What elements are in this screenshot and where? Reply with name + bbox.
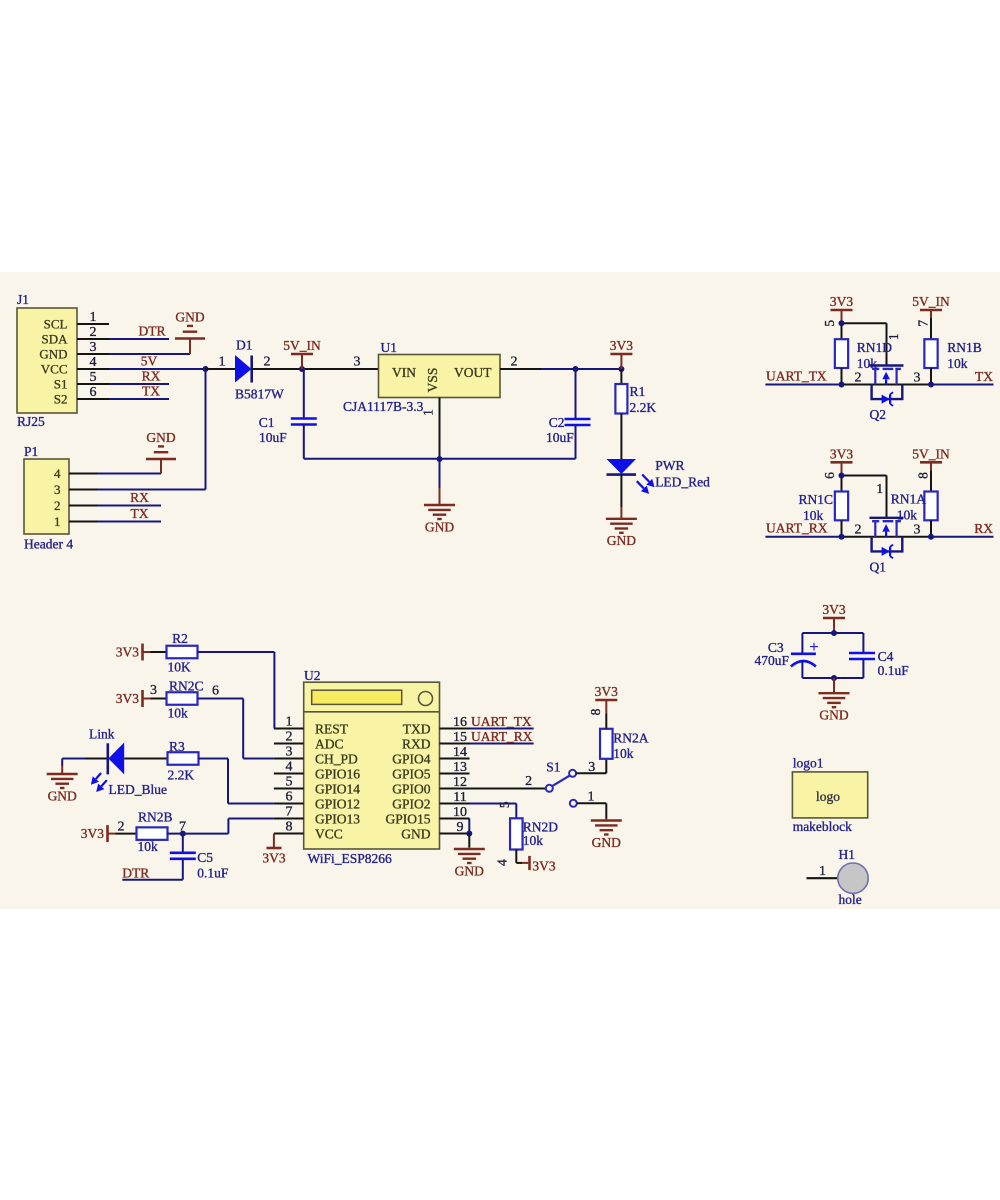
svg-text:RXD: RXD xyxy=(402,736,431,751)
svg-text:5V_IN: 5V_IN xyxy=(912,446,950,461)
svg-text:makeblock: makeblock xyxy=(793,819,852,834)
svg-text:5V_IN: 5V_IN xyxy=(912,294,950,309)
svg-text:3: 3 xyxy=(90,340,97,355)
svg-text:Link: Link xyxy=(89,727,115,742)
svg-text:RX: RX xyxy=(130,490,149,505)
svg-text:1: 1 xyxy=(876,481,883,496)
svg-text:11: 11 xyxy=(453,790,466,805)
svg-text:10k: 10k xyxy=(168,706,189,721)
svg-text:12: 12 xyxy=(453,775,467,790)
svg-text:B5817W: B5817W xyxy=(235,387,284,402)
svg-text:GPIO13: GPIO13 xyxy=(315,811,360,826)
svg-text:VSS: VSS xyxy=(425,368,440,393)
svg-text:GPIO4: GPIO4 xyxy=(392,751,431,766)
svg-text:3V3: 3V3 xyxy=(830,446,853,461)
svg-text:RN1B: RN1B xyxy=(947,340,982,355)
svg-text:3: 3 xyxy=(286,744,293,759)
svg-text:GND: GND xyxy=(819,708,848,723)
svg-text:DTR: DTR xyxy=(122,866,149,881)
svg-text:10K: 10K xyxy=(168,660,192,675)
svg-text:Q2: Q2 xyxy=(870,407,887,422)
svg-text:SCL: SCL xyxy=(44,317,68,332)
svg-text:C5: C5 xyxy=(197,850,213,865)
svg-text:CJA1117B-3.3: CJA1117B-3.3 xyxy=(343,399,424,414)
svg-text:1: 1 xyxy=(588,789,595,804)
svg-text:SDA: SDA xyxy=(41,332,68,347)
svg-text:0.1uF: 0.1uF xyxy=(197,865,229,880)
svg-text:5: 5 xyxy=(497,801,512,808)
svg-text:U1: U1 xyxy=(381,340,398,355)
svg-text:3: 3 xyxy=(914,523,921,538)
svg-text:10k: 10k xyxy=(138,839,159,854)
svg-text:GPIO5: GPIO5 xyxy=(392,766,431,781)
svg-text:5V: 5V xyxy=(141,354,158,369)
svg-text:3: 3 xyxy=(914,370,921,385)
svg-text:R1: R1 xyxy=(630,384,646,399)
svg-text:RN1C: RN1C xyxy=(798,492,833,507)
svg-text:GPIO2: GPIO2 xyxy=(392,796,430,811)
svg-text:10uF: 10uF xyxy=(546,430,574,445)
svg-text:2: 2 xyxy=(855,523,862,538)
svg-text:GPIO0: GPIO0 xyxy=(392,781,431,796)
svg-text:4: 4 xyxy=(495,859,510,866)
svg-text:13: 13 xyxy=(453,760,467,775)
svg-text:REST: REST xyxy=(315,721,349,736)
svg-text:UART_RX: UART_RX xyxy=(471,729,533,744)
svg-text:GPIO14: GPIO14 xyxy=(315,781,360,796)
svg-text:CH_PD: CH_PD xyxy=(315,751,358,766)
svg-text:UART_TX: UART_TX xyxy=(766,368,827,383)
svg-text:1: 1 xyxy=(90,310,97,325)
svg-text:GND: GND xyxy=(175,310,204,325)
svg-text:GPIO12: GPIO12 xyxy=(315,796,360,811)
svg-text:8: 8 xyxy=(588,708,603,715)
svg-text:10uF: 10uF xyxy=(259,430,287,445)
svg-text:2: 2 xyxy=(855,370,862,385)
svg-text:GND: GND xyxy=(48,788,77,803)
svg-text:6: 6 xyxy=(212,684,219,699)
svg-text:6: 6 xyxy=(286,789,293,804)
svg-text:3V3: 3V3 xyxy=(610,338,633,353)
svg-text:PWR: PWR xyxy=(655,458,684,473)
svg-text:J1: J1 xyxy=(17,292,29,307)
svg-text:2: 2 xyxy=(90,325,97,340)
svg-text:S2: S2 xyxy=(54,392,68,407)
svg-text:4: 4 xyxy=(286,759,293,774)
svg-text:RN2B: RN2B xyxy=(138,810,173,825)
svg-text:S1: S1 xyxy=(54,377,68,392)
svg-text:5: 5 xyxy=(286,774,293,789)
svg-text:16: 16 xyxy=(453,715,467,730)
svg-text:3: 3 xyxy=(54,482,61,497)
svg-text:7: 7 xyxy=(916,320,931,327)
svg-text:2: 2 xyxy=(511,355,518,370)
svg-text:1: 1 xyxy=(219,355,226,370)
svg-text:Header 4: Header 4 xyxy=(24,537,73,552)
svg-text:15: 15 xyxy=(453,730,467,745)
svg-text:3V3: 3V3 xyxy=(532,859,555,874)
svg-text:RJ25: RJ25 xyxy=(17,414,45,429)
svg-text:6: 6 xyxy=(822,472,837,479)
svg-text:8: 8 xyxy=(286,819,293,834)
svg-text:LED_Red: LED_Red xyxy=(655,474,710,489)
svg-text:C2: C2 xyxy=(549,415,565,430)
svg-text:2: 2 xyxy=(118,820,125,835)
svg-text:1: 1 xyxy=(819,864,826,879)
svg-text:3V3: 3V3 xyxy=(116,691,139,706)
svg-text:VIN: VIN xyxy=(392,365,416,380)
svg-text:3: 3 xyxy=(588,760,595,775)
svg-text:R2: R2 xyxy=(172,631,188,646)
svg-text:1: 1 xyxy=(54,514,61,529)
svg-text:14: 14 xyxy=(453,745,467,760)
svg-text:TX: TX xyxy=(975,369,993,384)
svg-text:GND: GND xyxy=(592,835,621,850)
svg-text:DTR: DTR xyxy=(139,324,166,339)
svg-text:hole: hole xyxy=(839,892,862,907)
svg-text:GND: GND xyxy=(425,519,454,534)
svg-text:RN2A: RN2A xyxy=(613,731,649,746)
svg-text:Q1: Q1 xyxy=(870,559,887,574)
svg-text:GND: GND xyxy=(607,533,636,548)
svg-text:TXD: TXD xyxy=(403,721,431,736)
svg-text:UART_RX: UART_RX xyxy=(766,521,828,536)
svg-text:C1: C1 xyxy=(259,415,275,430)
svg-text:2.2K: 2.2K xyxy=(630,400,657,415)
svg-text:8: 8 xyxy=(916,472,931,479)
svg-text:2: 2 xyxy=(54,498,61,513)
svg-text:10k: 10k xyxy=(523,833,544,848)
svg-text:3V3: 3V3 xyxy=(595,684,618,699)
svg-text:3: 3 xyxy=(150,683,157,698)
svg-text:GPIO16: GPIO16 xyxy=(315,766,360,781)
svg-text:GPIO15: GPIO15 xyxy=(385,811,430,826)
svg-text:7: 7 xyxy=(286,804,293,819)
svg-text:10k: 10k xyxy=(613,746,634,761)
svg-text:GND: GND xyxy=(39,347,67,362)
svg-text:VOUT: VOUT xyxy=(454,365,492,380)
svg-text:470uF: 470uF xyxy=(754,653,789,668)
svg-text:2: 2 xyxy=(525,774,532,789)
svg-text:C4: C4 xyxy=(878,649,894,664)
svg-text:D1: D1 xyxy=(236,338,253,353)
svg-text:6: 6 xyxy=(90,385,97,400)
svg-text:5V_IN: 5V_IN xyxy=(283,338,321,353)
svg-text:10: 10 xyxy=(453,805,467,820)
svg-text:4: 4 xyxy=(54,466,61,481)
svg-text:logo: logo xyxy=(816,789,840,804)
svg-text:2: 2 xyxy=(264,355,271,370)
svg-text:5: 5 xyxy=(822,320,837,327)
svg-text:RN1A: RN1A xyxy=(891,492,927,507)
svg-text:1: 1 xyxy=(286,714,293,729)
svg-text:3V3: 3V3 xyxy=(262,851,285,866)
svg-text:logo1: logo1 xyxy=(793,756,824,771)
svg-text:0.1uF: 0.1uF xyxy=(878,663,910,678)
svg-text:RX: RX xyxy=(142,369,161,384)
svg-text:3V3: 3V3 xyxy=(822,602,845,617)
svg-text:TX: TX xyxy=(131,506,149,521)
svg-text:2.2K: 2.2K xyxy=(168,768,195,783)
svg-text:WiFi_ESP8266: WiFi_ESP8266 xyxy=(308,851,392,866)
svg-text:H1: H1 xyxy=(839,847,856,862)
svg-text:3V3: 3V3 xyxy=(116,645,139,660)
svg-text:P1: P1 xyxy=(24,444,38,459)
svg-text:RN1D: RN1D xyxy=(857,340,893,355)
svg-text:3V3: 3V3 xyxy=(830,294,853,309)
svg-text:GND: GND xyxy=(455,863,484,878)
svg-text:1: 1 xyxy=(886,333,901,340)
svg-text:4: 4 xyxy=(90,355,97,370)
svg-text:GND: GND xyxy=(146,430,175,445)
svg-text:VCC: VCC xyxy=(41,362,68,377)
svg-text:9: 9 xyxy=(457,820,464,835)
svg-text:RX: RX xyxy=(974,521,993,536)
svg-text:TX: TX xyxy=(142,384,160,399)
svg-text:U2: U2 xyxy=(304,668,321,683)
svg-text:GND: GND xyxy=(401,826,430,841)
svg-text:S1: S1 xyxy=(546,760,560,775)
svg-text:3V3: 3V3 xyxy=(81,826,104,841)
svg-text:10k: 10k xyxy=(947,356,968,371)
svg-text:2: 2 xyxy=(286,729,293,744)
svg-text:1: 1 xyxy=(421,409,436,416)
svg-text:UART_TX: UART_TX xyxy=(471,714,532,729)
svg-text:5: 5 xyxy=(90,370,97,385)
svg-text:ADC: ADC xyxy=(315,736,344,751)
svg-text:VCC: VCC xyxy=(315,826,343,841)
svg-text:3: 3 xyxy=(354,355,361,370)
svg-text:LED_Blue: LED_Blue xyxy=(109,782,168,797)
